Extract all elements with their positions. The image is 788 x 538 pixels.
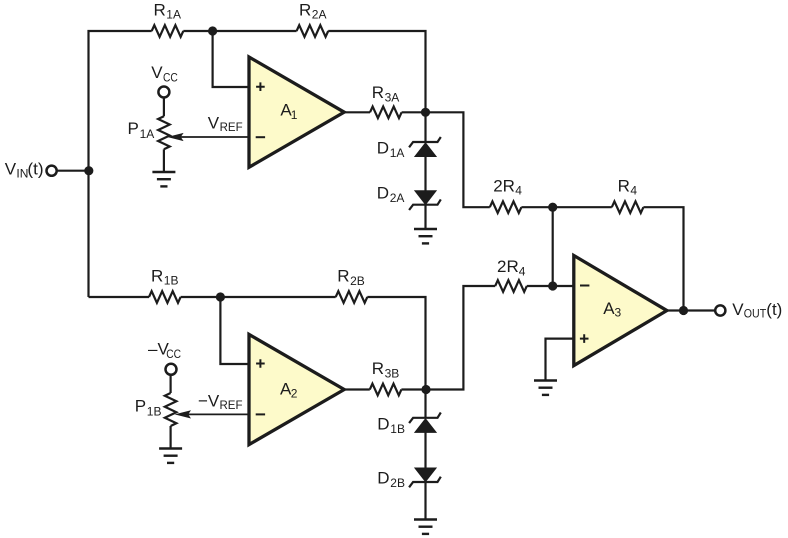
wire [527, 285, 574, 287]
svg-text:R: R [372, 83, 384, 102]
svg-text:REF: REF [220, 398, 243, 412]
label R4 [618, 176, 638, 197]
wire [553, 206, 612, 208]
op-amp A3 [574, 256, 667, 366]
wire [344, 111, 370, 113]
svg-text:2B: 2B [390, 476, 405, 490]
label VREF [208, 113, 243, 134]
svg-text:2A: 2A [312, 8, 327, 22]
junction R1B/R2B [216, 292, 225, 301]
wire [424, 205, 426, 229]
wire [426, 286, 495, 390]
svg-text:D: D [377, 469, 389, 488]
label 2R4 upper [493, 176, 522, 197]
junction node B [421, 385, 430, 394]
svg-text:1A: 1A [390, 146, 405, 160]
svg-text:P: P [128, 119, 139, 138]
svg-text:2: 2 [291, 387, 298, 401]
label A2 [280, 379, 298, 400]
label A3 [603, 299, 621, 320]
label A1 [280, 101, 297, 122]
svg-text:D: D [377, 415, 389, 434]
wire [170, 374, 172, 393]
resistor R4 [612, 201, 644, 213]
wire [424, 482, 426, 520]
resistor R3B [370, 384, 402, 396]
svg-text:1B: 1B [147, 404, 162, 418]
svg-text:R: R [151, 266, 163, 285]
label P1A [128, 119, 155, 141]
wire [667, 309, 715, 311]
ground (A3 +input) [534, 381, 557, 395]
label D2A [377, 184, 405, 205]
svg-text:D: D [377, 139, 389, 158]
diode D2B [409, 468, 441, 487]
label R3A [372, 83, 399, 104]
svg-text:R: R [618, 176, 630, 195]
junction R1A/R2A [208, 26, 217, 35]
svg-text:V: V [5, 159, 17, 178]
label VCC [151, 63, 178, 84]
svg-text:R: R [154, 0, 166, 19]
wire [183, 30, 296, 32]
svg-text:V: V [208, 113, 220, 132]
ground (D2B) [414, 520, 437, 534]
terminal VOUT [715, 305, 725, 315]
wire [89, 296, 150, 298]
svg-text:1B: 1B [164, 274, 179, 288]
wire [401, 388, 426, 390]
label R1A [154, 0, 181, 21]
wire [424, 157, 426, 191]
wire [170, 426, 172, 449]
resistor 2R4 upper [490, 201, 522, 213]
svg-text:2R: 2R [493, 176, 515, 195]
resistor R1B [149, 291, 181, 303]
wire [344, 388, 370, 390]
wire [552, 207, 554, 286]
label R3B [372, 359, 399, 380]
svg-text:1: 1 [291, 108, 298, 122]
svg-text:4: 4 [519, 264, 526, 278]
svg-text:OUT: OUT [744, 307, 767, 321]
wire [328, 31, 425, 112]
wiper arrow P1A [167, 133, 249, 141]
resistor R2B [336, 291, 368, 303]
junction output node [679, 306, 688, 315]
ground (D2A) [414, 229, 437, 243]
label -VREF [198, 391, 243, 412]
resistor 2R4 lower [495, 280, 527, 292]
op-amp A1 [249, 57, 344, 167]
svg-text:2R: 2R [497, 257, 519, 276]
svg-text:(t): (t) [766, 300, 782, 319]
wire [89, 31, 152, 297]
wire [546, 339, 574, 381]
terminal -VCC [166, 364, 177, 375]
svg-text:V: V [732, 300, 744, 319]
diode D2A [409, 191, 441, 210]
diode D1B [409, 413, 441, 433]
wiper arrow P1B [175, 410, 249, 418]
potentiometer P1A [158, 116, 170, 149]
svg-text:3B: 3B [385, 366, 400, 380]
potentiometer P1B [165, 393, 177, 426]
diode D1A [409, 137, 441, 157]
terminal VIN [47, 166, 57, 176]
svg-text:P: P [135, 397, 146, 416]
svg-text:CC: CC [166, 347, 181, 361]
op-amp A2 [249, 334, 344, 444]
svg-text:CC: CC [163, 70, 178, 84]
svg-text:1A: 1A [140, 127, 155, 141]
svg-text:4: 4 [630, 184, 637, 198]
svg-text:A: A [603, 299, 615, 318]
label VIN(t) [5, 159, 44, 180]
label R1B [151, 266, 178, 287]
wire [426, 112, 490, 207]
junction node A [421, 108, 430, 117]
wire [643, 207, 683, 310]
wire [402, 111, 426, 113]
terminal VCC [158, 87, 169, 98]
label D1A [377, 139, 405, 160]
svg-text:R: R [337, 267, 349, 286]
wire [213, 31, 250, 87]
ground (P1B) [159, 449, 182, 463]
wire [163, 149, 165, 172]
svg-text:3A: 3A [385, 90, 400, 104]
wire [521, 206, 552, 208]
svg-text:D: D [377, 184, 389, 203]
wire [57, 170, 89, 172]
label D2B [377, 469, 405, 490]
junction sum node lower [548, 281, 557, 290]
wire [163, 98, 165, 116]
wire [367, 297, 425, 390]
svg-text:R: R [299, 0, 311, 19]
label 2R4 lower [497, 257, 526, 278]
ground (P1A) [152, 172, 175, 186]
wire [424, 432, 426, 468]
wire [424, 390, 426, 418]
svg-text:−V: −V [198, 391, 220, 410]
label R2B [337, 267, 364, 288]
label R2A [299, 0, 326, 21]
svg-text:(t): (t) [27, 159, 43, 178]
junction node VIN [84, 166, 93, 175]
label VOUT(t) [732, 300, 782, 321]
svg-text:2A: 2A [390, 191, 405, 205]
svg-text:2B: 2B [350, 274, 365, 288]
resistor R1A [152, 25, 184, 37]
resistor R3A [370, 107, 402, 119]
resistor R2A [297, 25, 329, 37]
wire [424, 112, 426, 142]
wire [181, 296, 336, 298]
svg-text:3: 3 [615, 306, 622, 320]
svg-text:1A: 1A [166, 8, 181, 22]
svg-text:1B: 1B [390, 422, 405, 436]
label -VCC [148, 340, 181, 361]
label P1B [135, 397, 162, 419]
svg-text:4: 4 [515, 184, 522, 198]
svg-text:R: R [372, 359, 384, 378]
wire [220, 297, 250, 364]
svg-text:REF: REF [220, 120, 243, 134]
label D1B [377, 415, 405, 436]
svg-text:V: V [151, 63, 163, 82]
junction sum node upper [548, 203, 557, 212]
